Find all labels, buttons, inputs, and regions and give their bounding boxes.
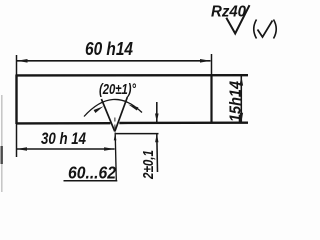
svg-text:Rz40: Rz40 [211,4,246,21]
svg-text:30 h 14: 30 h 14 [41,129,86,148]
svg-text:60 h14: 60 h14 [85,39,133,59]
svg-text:(20±1)°: (20±1)° [99,82,136,98]
svg-text:60...62: 60...62 [68,163,116,183]
svg-text:15h14: 15h14 [228,81,245,122]
svg-text:2±0,1: 2±0,1 [140,150,157,180]
